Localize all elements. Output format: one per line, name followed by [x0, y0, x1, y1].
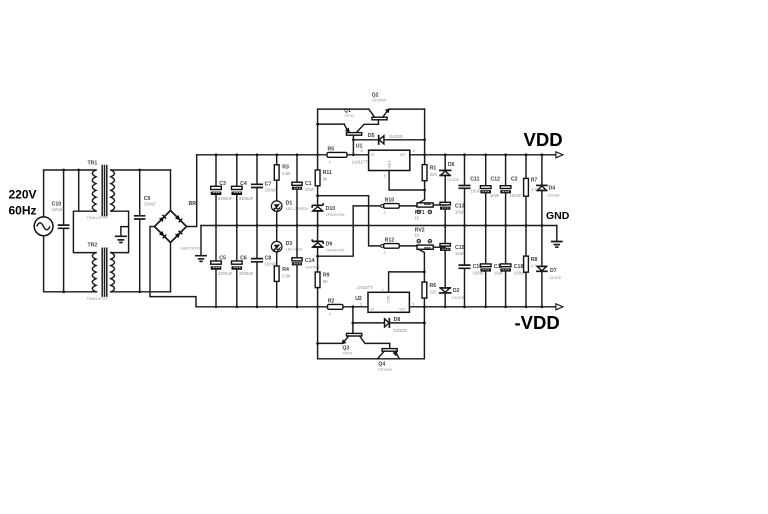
svg-text:TRAN-2P2S: TRAN-2P2S — [87, 297, 108, 301]
svg-text:4.7: 4.7 — [531, 187, 538, 192]
svg-text:C3: C3 — [219, 181, 226, 187]
svg-text:R12: R12 — [385, 238, 395, 244]
svg-text:R3: R3 — [282, 165, 289, 171]
capacitor C9 — [135, 170, 157, 292]
node Q1 base rail — [352, 153, 355, 156]
wire Q1 emitter feed — [318, 123, 345, 125]
svg-text:GND: GND — [546, 210, 570, 222]
transistor Q1 TIP42 — [344, 108, 362, 155]
svg-text:D4: D4 — [549, 185, 556, 191]
node A — [316, 194, 319, 197]
svg-text:C4: C4 — [240, 181, 247, 187]
junction dots GND rail — [215, 224, 544, 227]
transistor Q4 TIP3055 — [377, 343, 399, 372]
capacitor C13 — [440, 202, 465, 225]
svg-text:R8: R8 — [531, 257, 538, 263]
node B — [316, 255, 319, 258]
diode D5 — [353, 133, 424, 144]
wire secondary center tap — [111, 211, 129, 252]
svg-text:D6: D6 — [448, 162, 455, 168]
pot RV1 — [414, 190, 445, 221]
svg-text:D3: D3 — [286, 241, 293, 247]
svg-text:100uF: 100uF — [510, 193, 523, 198]
svg-text:C13: C13 — [455, 203, 465, 209]
transistor Q2 TIP3055 — [356, 92, 424, 132]
-VDD arrow — [556, 304, 563, 310]
svg-text:2PBVNTRL: 2PBVNTRL — [326, 249, 346, 253]
transformer TR2 — [87, 243, 115, 301]
node adj2 junction — [423, 271, 426, 274]
resistor R11 — [315, 155, 332, 204]
wire bridge top — [170, 170, 172, 211]
svg-text:ADJ: ADJ — [387, 161, 391, 168]
svg-text:LED-RED: LED-RED — [286, 248, 303, 252]
pot RV2 — [414, 227, 445, 272]
svg-text:LM337T: LM337T — [357, 285, 373, 290]
wire Q3 base — [352, 307, 354, 334]
capacitor C17 — [480, 226, 504, 307]
svg-text:TR1: TR1 — [88, 161, 98, 167]
capacitor C3 — [211, 155, 233, 226]
wire secondary top rail — [111, 169, 171, 171]
wire source bottom — [44, 236, 97, 292]
resistor R2 — [328, 299, 344, 316]
svg-text:1: 1 — [329, 312, 331, 316]
node D8 left — [352, 322, 355, 325]
svg-text:C18: C18 — [514, 264, 524, 270]
svg-text:220: 220 — [430, 290, 438, 295]
LED D1 — [271, 201, 308, 212]
svg-text:1: 1 — [329, 160, 331, 164]
diode D4 — [537, 155, 560, 226]
svg-text:ADJ: ADJ — [386, 296, 390, 303]
svg-text:C2: C2 — [511, 177, 518, 183]
svg-text:C12: C12 — [491, 177, 501, 183]
svg-text:R2: R2 — [328, 299, 335, 305]
svg-text:3: 3 — [361, 149, 363, 153]
node Q3 emitter — [316, 342, 319, 345]
svg-text:1: 1 — [382, 288, 384, 292]
ground mid rail — [196, 226, 206, 262]
svg-text:D1: D1 — [286, 201, 293, 207]
svg-text:10uF: 10uF — [471, 189, 481, 194]
svg-text:100uF: 100uF — [265, 187, 278, 192]
ground center tap — [116, 236, 126, 242]
svg-text:3: 3 — [412, 303, 414, 307]
svg-text:220: 220 — [430, 172, 438, 177]
wire primary link — [73, 170, 96, 253]
svg-text:3300uF: 3300uF — [239, 271, 254, 276]
bridge rectifier BR — [155, 201, 200, 251]
svg-text:9K: 9K — [323, 279, 328, 284]
resistor R3 — [274, 155, 291, 201]
svg-text:R9: R9 — [323, 273, 330, 279]
svg-text:TIP3055: TIP3055 — [378, 368, 392, 372]
svg-text:2PBVNTRL: 2PBVNTRL — [326, 213, 346, 217]
svg-text:5.6k: 5.6k — [282, 274, 291, 279]
svg-text:DIODE: DIODE — [452, 296, 464, 300]
capacitor C8 — [252, 226, 277, 307]
resistor R1 — [422, 155, 437, 190]
capacitor C4 — [232, 155, 254, 226]
wire bridge bottom — [170, 243, 172, 292]
svg-text:D9: D9 — [326, 242, 333, 248]
capacitor C11 — [459, 155, 480, 226]
svg-text:DIODE: DIODE — [447, 178, 459, 182]
svg-text:10uF: 10uF — [455, 210, 465, 215]
svg-text:R5: R5 — [328, 147, 335, 153]
capacitor C2 — [500, 155, 522, 226]
zener D9 — [312, 226, 345, 257]
wire Q collector feed — [318, 109, 369, 155]
svg-text:VDD: VDD — [524, 129, 563, 150]
svg-text:3300uF: 3300uF — [239, 196, 254, 201]
svg-text:TR2: TR2 — [88, 243, 98, 249]
resistor R7 — [524, 155, 538, 226]
svg-text:D2: D2 — [453, 288, 460, 294]
VDD rail — [197, 154, 556, 156]
node Q1 feed — [316, 123, 319, 126]
svg-text:C15: C15 — [455, 245, 465, 251]
svg-text:LM317T: LM317T — [352, 159, 368, 164]
svg-text:220V: 220V — [9, 188, 37, 202]
svg-text:VO: VO — [400, 153, 406, 157]
diode D7 — [537, 226, 562, 307]
svg-text:VI: VI — [371, 153, 375, 157]
resistor R5 — [327, 147, 347, 164]
svg-text:C11: C11 — [470, 177, 479, 183]
svg-text:2: 2 — [360, 303, 362, 307]
AC source V1 — [34, 217, 53, 236]
svg-text:3300uF: 3300uF — [218, 271, 233, 276]
node R9 rail — [316, 305, 319, 308]
svg-text:VI: VI — [370, 307, 374, 311]
svg-text:DIODE: DIODE — [389, 134, 403, 139]
svg-text:1: 1 — [384, 175, 386, 179]
svg-text:D10: D10 — [326, 206, 336, 212]
junction dots -VDD rail — [215, 305, 544, 308]
svg-text:-VDD: -VDD — [515, 312, 560, 333]
diode D6 — [440, 155, 460, 203]
wire B D9 junction to R10 — [318, 206, 384, 256]
node C13 gnd — [444, 224, 447, 227]
svg-text:C5: C5 — [219, 256, 226, 262]
wire secondary bottom — [111, 291, 171, 293]
resistor R10 — [381, 198, 417, 215]
wire source top — [44, 170, 96, 217]
-VDD rail — [196, 306, 556, 308]
capacitor C16 — [459, 226, 485, 307]
capacitor C14 — [292, 226, 320, 307]
svg-text:100uF: 100uF — [52, 207, 65, 212]
svg-text:DIODE: DIODE — [548, 193, 560, 197]
svg-text:DIODE: DIODE — [549, 276, 561, 280]
svg-text:D8: D8 — [394, 317, 401, 323]
capacitor C7 — [252, 155, 277, 226]
svg-text:10uF: 10uF — [455, 251, 465, 256]
wire D1 to gnd — [276, 212, 278, 226]
zener D10 — [312, 203, 345, 225]
svg-text:C14: C14 — [305, 258, 315, 264]
LED D3 — [271, 226, 302, 253]
node Q3 base rail — [352, 305, 355, 308]
svg-text:1: 1 — [383, 210, 385, 214]
node D8 right — [423, 322, 426, 325]
svg-text:D5: D5 — [368, 133, 375, 139]
node D5 right — [423, 138, 426, 141]
svg-text:10uF: 10uF — [305, 187, 315, 192]
svg-text:Q2: Q2 — [372, 92, 379, 98]
junction dots VDD rail — [215, 153, 544, 156]
node D6 rail — [444, 153, 447, 156]
svg-text:TRAN-2P2S: TRAN-2P2S — [87, 216, 108, 220]
diode D8 — [353, 317, 425, 333]
svg-text:1: 1 — [383, 250, 385, 254]
svg-text:R6: R6 — [430, 283, 437, 289]
node R6 rail — [423, 305, 426, 308]
regulator U1 LM317 — [352, 144, 415, 179]
capacitor C18 — [500, 226, 526, 307]
node adj junction — [423, 189, 426, 192]
capacitor C10 — [52, 170, 69, 292]
svg-text:VO: VO — [399, 307, 405, 311]
node D5 left — [352, 138, 355, 141]
regulator U2 LM337 — [355, 285, 414, 312]
svg-text:DIODE: DIODE — [394, 328, 408, 333]
ground GND rail right — [552, 226, 562, 248]
capacitor C5 — [211, 226, 233, 307]
svg-text:TIP42: TIP42 — [344, 114, 354, 118]
wire U2 adj — [389, 272, 425, 292]
svg-text:GBPC3506: GBPC3506 — [181, 247, 200, 251]
resistor R4 — [274, 252, 291, 307]
svg-text:R4: R4 — [282, 267, 289, 273]
svg-text:C6: C6 — [240, 256, 247, 262]
svg-text:R1: R1 — [430, 165, 437, 171]
svg-text:TIP3055: TIP3055 — [372, 99, 386, 103]
svg-text:Q4: Q4 — [378, 362, 385, 368]
GND rail — [201, 225, 557, 227]
wire bridge minus — [150, 227, 196, 307]
svg-text:BR: BR — [189, 201, 197, 207]
svg-text:3300uF: 3300uF — [218, 196, 233, 201]
resistor R9 — [315, 256, 329, 307]
capacitor C1 — [292, 155, 315, 226]
label 220V 60Hz — [9, 188, 37, 218]
wire Q2 emitter drop — [424, 109, 426, 155]
svg-text:U2: U2 — [355, 296, 362, 302]
resistor R6 — [422, 272, 437, 307]
capacitor C6 — [232, 226, 254, 307]
wire A R11 junction to R12 — [318, 196, 384, 246]
diode D2 — [440, 288, 465, 307]
transistor Q3 TIP41 — [318, 333, 390, 355]
svg-text:2: 2 — [413, 149, 415, 153]
wire ground tap — [121, 227, 129, 236]
resistor R8 — [524, 226, 538, 307]
capacitor C15 — [440, 226, 465, 288]
node dots C9 — [138, 169, 141, 294]
svg-text:10uF: 10uF — [490, 193, 500, 198]
wire U1 adj — [389, 171, 425, 191]
svg-text:5.6k: 5.6k — [282, 171, 291, 176]
svg-text:60Hz: 60Hz — [9, 203, 37, 217]
transformer TR1 — [87, 161, 115, 220]
svg-text:100uF: 100uF — [144, 201, 157, 206]
wire bridge plus — [187, 155, 197, 227]
svg-text:R10: R10 — [385, 198, 395, 204]
VDD arrow — [556, 152, 563, 158]
svg-text:R7: R7 — [531, 177, 538, 183]
svg-text:D7: D7 — [550, 268, 557, 274]
svg-text:Q1: Q1 — [344, 108, 351, 114]
node dots mains — [62, 169, 80, 294]
wire Q3 emitter drop — [318, 307, 425, 359]
capacitor C12 — [480, 155, 500, 226]
resistor R12 — [381, 238, 417, 255]
svg-text:TIP41: TIP41 — [343, 351, 353, 355]
svg-text:R11: R11 — [323, 170, 332, 176]
